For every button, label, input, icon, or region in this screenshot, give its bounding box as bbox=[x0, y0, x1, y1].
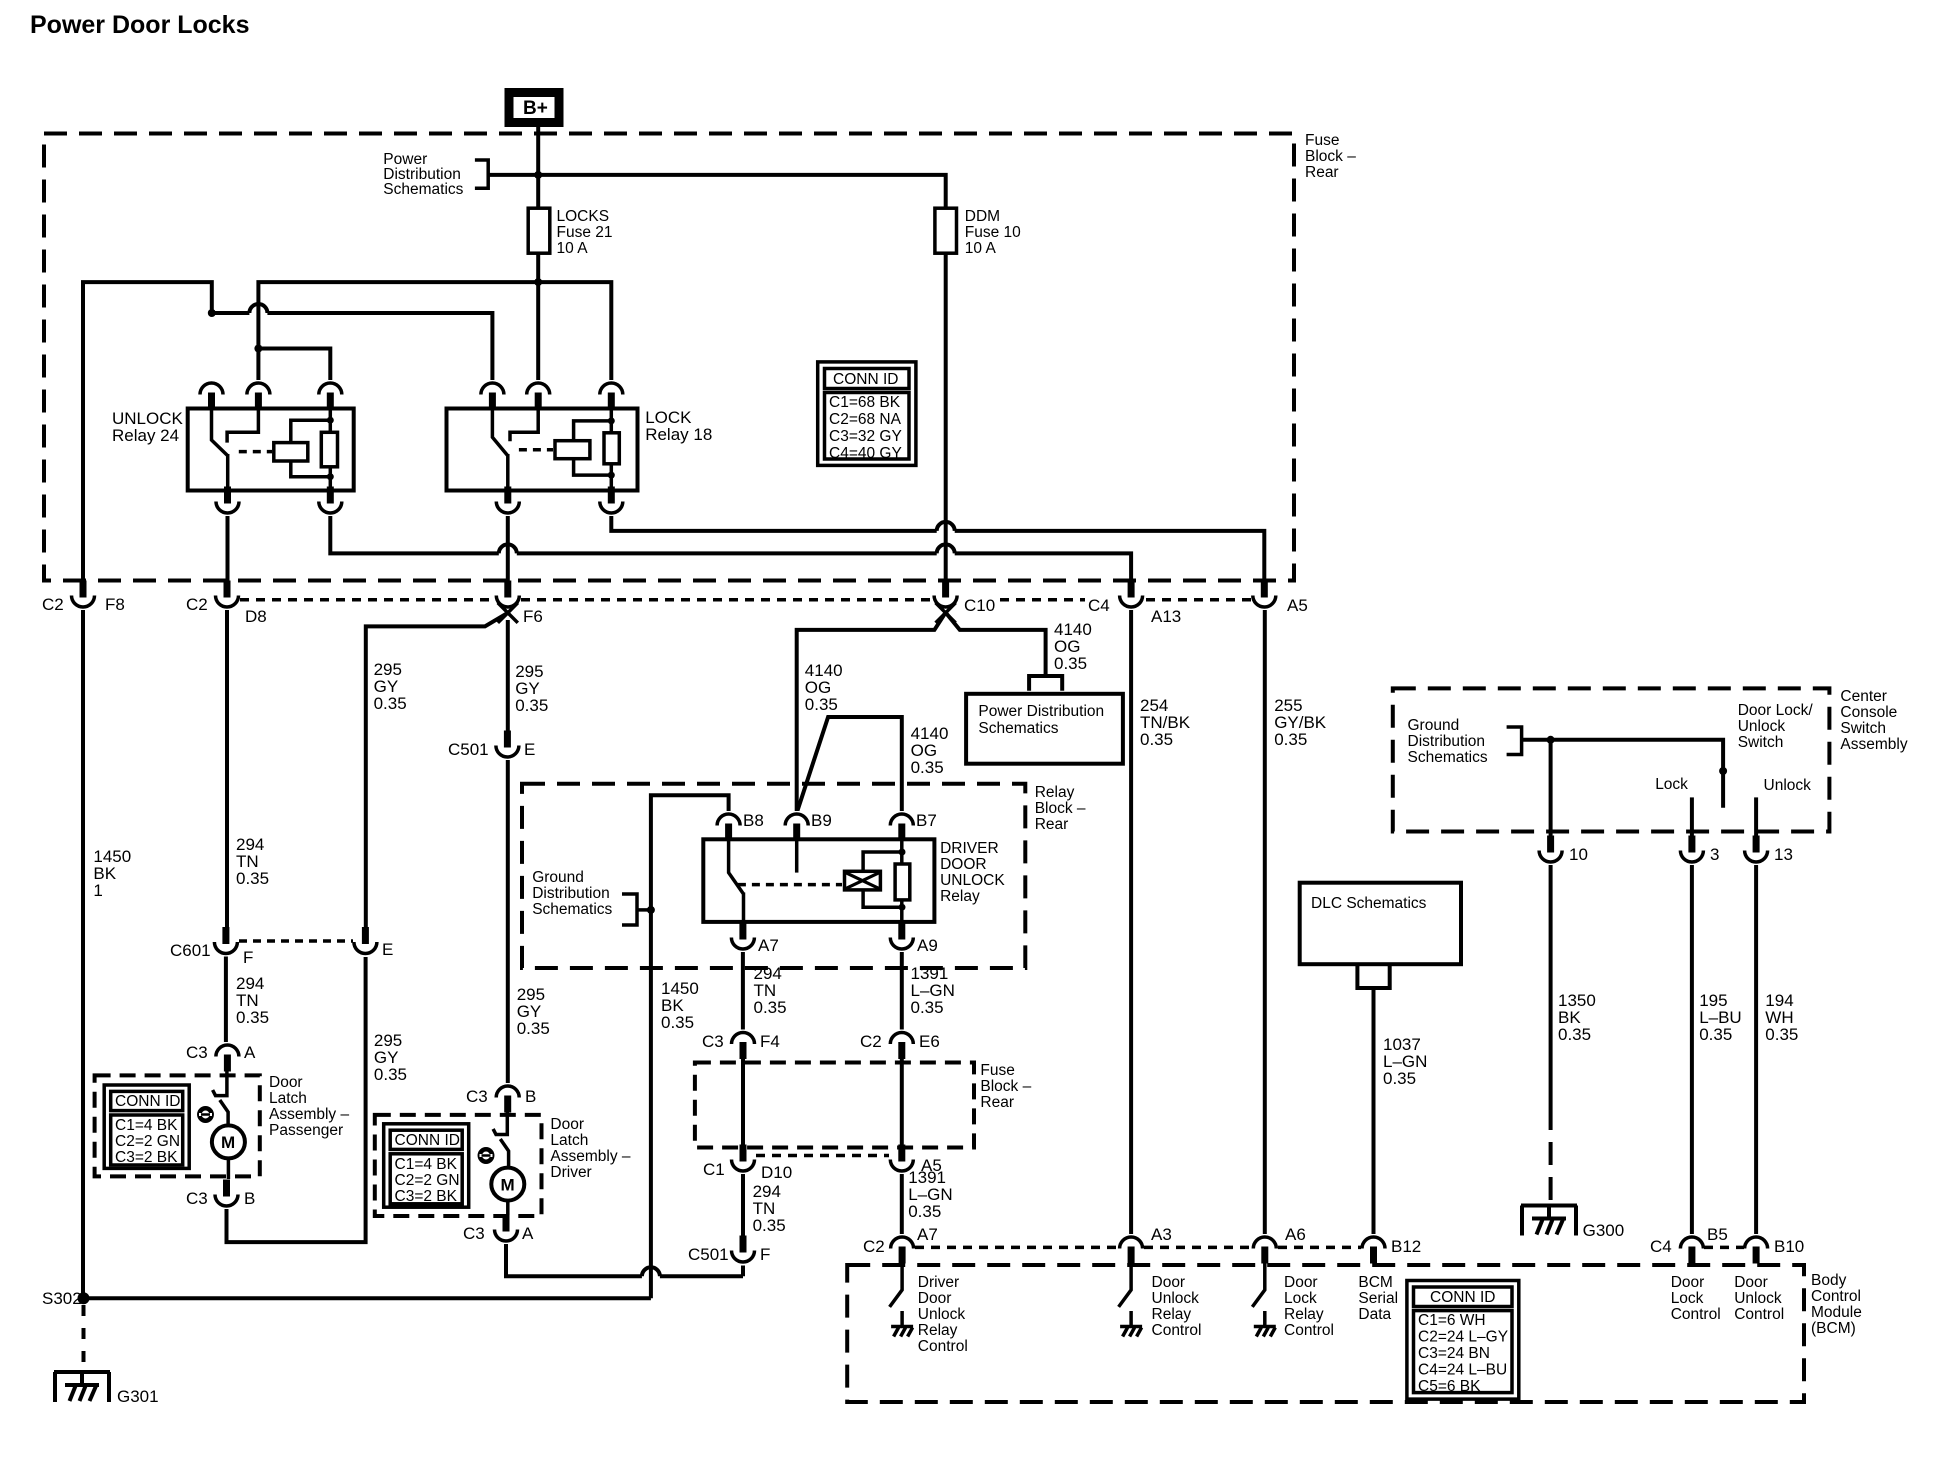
wire: branch down to pin 10 bbox=[1549, 740, 1553, 836]
connector F6 with splice bbox=[496, 581, 543, 627]
Relay Block - Rear enclosure (dashed) bbox=[522, 784, 1025, 968]
svg-text:Body: Body bbox=[1811, 1272, 1847, 1289]
wire 294 TN 0.35: C1/D10 down to C501/F bbox=[743, 1174, 786, 1236]
label: Body Control Module (BCM) bbox=[1811, 1272, 1862, 1337]
connector pin A3 (BCM) bbox=[1120, 1225, 1172, 1264]
svg-text:E: E bbox=[524, 740, 535, 759]
svg-text:Relay: Relay bbox=[940, 888, 980, 905]
svg-text:Driver: Driver bbox=[918, 1274, 959, 1291]
label: Door Latch Assembly - Driver bbox=[550, 1116, 630, 1181]
pin 3 of LOCK relay bbox=[600, 383, 623, 410]
switch contact: Lock bbox=[1690, 797, 1694, 836]
label: Ground Distribution Schematics (off-page) bbox=[532, 869, 612, 918]
relay: DRIVER DOOR UNLOCK Relay bbox=[703, 839, 934, 922]
svg-text:B9: B9 bbox=[811, 811, 832, 830]
wire: H1 bus right segment (unlock pin2 to lock pin3) bbox=[258, 282, 611, 380]
svg-text:F4: F4 bbox=[760, 1032, 780, 1051]
connector C501 pin F bbox=[688, 1236, 770, 1265]
svg-text:C3: C3 bbox=[186, 1043, 208, 1062]
svg-text:Door: Door bbox=[550, 1116, 584, 1133]
svg-text:1: 1 bbox=[93, 881, 102, 900]
svg-text:0.35: 0.35 bbox=[911, 758, 944, 777]
wire 1450 BK 0.35: relay B8 to S302 bbox=[651, 795, 729, 1298]
reference box: Power Distribution Schematics bbox=[966, 694, 1123, 764]
connector pin B12 (BCM) bbox=[1362, 1237, 1421, 1264]
svg-text:B: B bbox=[525, 1087, 536, 1106]
hop: H-553 over F6 wire bbox=[499, 544, 517, 553]
label: BCM Serial Data bbox=[1358, 1274, 1398, 1323]
svg-text:Latch: Latch bbox=[269, 1090, 307, 1107]
connector C3 pin B (passenger latch) bbox=[186, 1180, 255, 1209]
svg-text:0.35: 0.35 bbox=[374, 1065, 407, 1084]
svg-text:B10: B10 bbox=[1774, 1237, 1804, 1256]
svg-text:Relay: Relay bbox=[918, 1322, 958, 1339]
svg-text:Serial: Serial bbox=[1358, 1290, 1398, 1307]
svg-text:DLC Schematics: DLC Schematics bbox=[1311, 895, 1427, 912]
wire: unlock relay pin 4 down to D8 bbox=[226, 516, 230, 586]
svg-text:E: E bbox=[382, 940, 393, 959]
svg-text:0.35: 0.35 bbox=[515, 696, 548, 715]
switch: Door Unlock Relay Control bbox=[1119, 1264, 1143, 1337]
connector pin A5 (fuse block) bbox=[1253, 581, 1308, 616]
polarity mark (passenger latch) bbox=[199, 1108, 212, 1120]
svg-text:A3: A3 bbox=[1151, 1225, 1172, 1244]
svg-text:C2: C2 bbox=[186, 595, 208, 614]
junction at 1450 BK wire / ground distribution tap bbox=[647, 906, 655, 914]
svg-text:C3=2 BK: C3=2 BK bbox=[115, 1149, 178, 1166]
junction at B+ feed / power distribution tap bbox=[534, 171, 542, 179]
svg-text:C5=6 BK: C5=6 BK bbox=[1418, 1378, 1481, 1395]
wire 255 GY/BK 0.35: A5 down to BCM A6 bbox=[1265, 610, 1327, 1234]
svg-text:DRIVER: DRIVER bbox=[940, 840, 999, 857]
svg-text:Door: Door bbox=[1734, 1274, 1768, 1291]
svg-text:A6: A6 bbox=[1285, 1225, 1306, 1244]
svg-text:E6: E6 bbox=[919, 1032, 940, 1051]
svg-text:Block –: Block – bbox=[1305, 148, 1356, 165]
off-page tab below DLC box bbox=[1357, 964, 1389, 988]
svg-text:10: 10 bbox=[1569, 845, 1588, 864]
wire 4140 OG 0.35: C10 to power distribution bbox=[946, 613, 1092, 677]
component: Door Latch Assembly - Driver (dashed box) bbox=[375, 1115, 542, 1216]
svg-text:C3: C3 bbox=[702, 1032, 724, 1051]
svg-text:Relay 24: Relay 24 bbox=[112, 426, 179, 445]
wire 1391 L-GN 0.35: A5 down to BCM C2/A7 bbox=[902, 1168, 953, 1234]
connector boundary dotted A7-A3-A6-B12 bbox=[915, 1246, 1361, 1250]
wire: E6 to A5 inside fuse block bbox=[900, 1056, 904, 1146]
svg-text:0.35: 0.35 bbox=[374, 694, 407, 713]
relay: UNLOCK Relay 24 bbox=[188, 409, 354, 491]
svg-text:C3=24 BN: C3=24 BN bbox=[1418, 1345, 1490, 1362]
wire 1450 BK 1: F8 down to S302 bbox=[83, 610, 131, 1298]
Fuse Block - Rear enclosure (dashed) bbox=[44, 134, 1294, 581]
reference box: DLC Schematics bbox=[1300, 883, 1461, 965]
off-page tab to power distribution bbox=[1029, 676, 1062, 691]
ground G300 bbox=[1521, 1206, 1624, 1241]
svg-text:DDM: DDM bbox=[965, 208, 1000, 225]
svg-text:0.35: 0.35 bbox=[236, 1008, 269, 1027]
Fuse Block - Rear (mid) dashed box bbox=[695, 1063, 974, 1148]
wire: S302 to G301 (dashed) bbox=[82, 1305, 86, 1372]
pin 4 of LOCK relay bbox=[496, 487, 519, 514]
wire: console ground feed bbox=[1522, 740, 1724, 808]
svg-text:Lock: Lock bbox=[1671, 1290, 1704, 1307]
label: Door Lock Control bbox=[1671, 1274, 1721, 1323]
svg-text:13: 13 bbox=[1774, 845, 1793, 864]
svg-text:C2=68 NA: C2=68 NA bbox=[829, 411, 902, 428]
off-page bracket for Ground Distribution Schematics bbox=[622, 894, 651, 925]
svg-text:A9: A9 bbox=[917, 936, 938, 955]
connector pin 13 (console) bbox=[1745, 836, 1793, 865]
svg-text:10 A: 10 A bbox=[557, 240, 589, 257]
svg-text:Lock: Lock bbox=[1655, 776, 1688, 793]
svg-text:Relay: Relay bbox=[1152, 1306, 1192, 1323]
svg-text:C601: C601 bbox=[170, 941, 211, 960]
svg-text:G300: G300 bbox=[1583, 1221, 1625, 1240]
svg-text:Control: Control bbox=[1284, 1322, 1334, 1339]
svg-text:S302: S302 bbox=[42, 1289, 82, 1308]
svg-text:Rear: Rear bbox=[980, 1094, 1014, 1111]
label 295 GY 0.35 (E to passenger latch) bbox=[374, 1031, 407, 1084]
junction at H2 / unlock pin1 bbox=[208, 309, 216, 317]
pin B9 of driver door unlock relay bbox=[785, 811, 832, 841]
svg-text:Control: Control bbox=[1811, 1288, 1861, 1305]
svg-text:3: 3 bbox=[1710, 845, 1719, 864]
junction on switch common bbox=[1719, 767, 1727, 775]
label: Driver Door Unlock Relay Control bbox=[918, 1274, 968, 1355]
svg-text:Schematics: Schematics bbox=[532, 901, 612, 918]
node S302 bbox=[42, 1289, 90, 1308]
pin 1 of LOCK relay bbox=[481, 383, 504, 410]
svg-text:Door: Door bbox=[1671, 1274, 1705, 1291]
pin 5 of LOCK relay bbox=[600, 487, 623, 514]
svg-text:Unlock: Unlock bbox=[1738, 718, 1786, 735]
svg-text:Assembly: Assembly bbox=[1840, 736, 1907, 753]
motor M (driver latch) bbox=[491, 1168, 524, 1215]
svg-text:A7: A7 bbox=[758, 936, 779, 955]
connector C3 pin F4 bbox=[702, 1032, 780, 1059]
wire 294 TN 0.35: relay A7 down to C3/F4 bbox=[743, 952, 787, 1030]
wire 1391 L-GN 0.35: relay A9 down to C2/E6 bbox=[902, 952, 955, 1030]
svg-text:Rear: Rear bbox=[1305, 164, 1339, 181]
svg-text:Relay: Relay bbox=[1035, 784, 1075, 801]
svg-text:0.35: 0.35 bbox=[236, 869, 269, 888]
svg-text:0.35: 0.35 bbox=[1140, 730, 1173, 749]
hop: H2 over unlock pin2 wire bbox=[249, 304, 267, 313]
svg-text:D8: D8 bbox=[245, 607, 267, 626]
svg-text:Rear: Rear bbox=[1035, 816, 1069, 833]
connector pin B10 (BCM) bbox=[1745, 1237, 1805, 1264]
svg-text:A5: A5 bbox=[1287, 596, 1308, 615]
svg-text:G301: G301 bbox=[117, 1387, 159, 1406]
svg-text:A13: A13 bbox=[1151, 607, 1181, 626]
wire 1037 L-GN 0.35: DLC to BCM B12 bbox=[1374, 988, 1428, 1234]
wire: H2 bus from unlock pin1 to lock pin1 bbox=[212, 313, 493, 380]
wire 295 GY 0.35: C501/E down to driver latch B bbox=[508, 760, 550, 1083]
svg-text:C2: C2 bbox=[860, 1032, 882, 1051]
svg-text:Control: Control bbox=[1671, 1306, 1721, 1323]
connector boundary D10 to A5 dotted bbox=[756, 1154, 889, 1158]
hop: H-553 over C10 wire bbox=[937, 544, 955, 553]
connector C2 pin D8 bbox=[186, 581, 267, 627]
svg-text:Data: Data bbox=[1358, 1306, 1391, 1323]
svg-text:0.35: 0.35 bbox=[1383, 1069, 1416, 1088]
svg-text:CONN ID: CONN ID bbox=[833, 371, 898, 388]
Body Control Module (BCM) enclosure (dashed) bbox=[847, 1265, 1804, 1402]
wire 295 GY 0.35: C601/E up to F6 bbox=[366, 613, 507, 928]
svg-text:Switch: Switch bbox=[1840, 720, 1886, 737]
svg-text:B7: B7 bbox=[916, 811, 937, 830]
pin 1 of UNLOCK relay bbox=[200, 383, 223, 410]
svg-text:C3=2 BK: C3=2 BK bbox=[395, 1188, 458, 1205]
svg-text:Fuse 21: Fuse 21 bbox=[557, 224, 613, 241]
svg-text:Distribution: Distribution bbox=[1408, 733, 1486, 750]
svg-text:Block –: Block – bbox=[980, 1078, 1031, 1095]
svg-text:0.35: 0.35 bbox=[805, 695, 838, 714]
svg-text:BCM: BCM bbox=[1358, 1274, 1392, 1291]
svg-text:Center: Center bbox=[1840, 688, 1887, 705]
svg-text:Schematics: Schematics bbox=[383, 181, 463, 198]
svg-text:Unlock: Unlock bbox=[1152, 1290, 1200, 1307]
svg-text:Unlock: Unlock bbox=[918, 1306, 966, 1323]
svg-text:Door: Door bbox=[1284, 1274, 1318, 1291]
svg-text:Passenger: Passenger bbox=[269, 1122, 343, 1139]
wire 254 TN/BK 0.35: C4/A13 down to BCM A3 bbox=[1131, 610, 1191, 1234]
svg-text:Schematics: Schematics bbox=[1408, 749, 1488, 766]
pin 4 of UNLOCK relay bbox=[216, 487, 239, 514]
connector pin 3 (console) bbox=[1680, 836, 1719, 865]
off-page bracket for Power Distribution Schematics bbox=[475, 160, 488, 188]
svg-text:C3: C3 bbox=[463, 1224, 485, 1243]
connector C1 pin D10 bbox=[703, 1145, 792, 1183]
svg-text:Relay: Relay bbox=[1284, 1306, 1324, 1323]
hop: H-530 over C10 wire bbox=[937, 522, 955, 531]
svg-text:CONN ID: CONN ID bbox=[395, 1132, 460, 1149]
svg-text:0.35: 0.35 bbox=[1558, 1025, 1591, 1044]
svg-text:DOOR: DOOR bbox=[940, 856, 987, 873]
pin A7 of driver door unlock relay bbox=[731, 923, 778, 956]
wire 194 WH 0.35: pin 13 to BCM B10 bbox=[1756, 865, 1798, 1234]
connector row C2 dotted boundary bbox=[240, 598, 1251, 602]
wire: driver latch A to C501/F bbox=[506, 1244, 743, 1276]
svg-text:CONN ID: CONN ID bbox=[1430, 1289, 1495, 1306]
CONN ID table (passenger latch) bbox=[104, 1085, 189, 1168]
pin A9 of driver door unlock relay bbox=[890, 923, 937, 956]
svg-text:C4=24 L–BU: C4=24 L–BU bbox=[1418, 1362, 1507, 1379]
wire: lock relay pin 4 down to F6 bbox=[506, 516, 510, 586]
connector pin 10 (console) bbox=[1539, 836, 1588, 865]
off-page bracket (console ground distribution) bbox=[1507, 727, 1523, 755]
svg-text:Driver: Driver bbox=[550, 1164, 591, 1181]
svg-text:Unlock: Unlock bbox=[1734, 1290, 1782, 1307]
svg-text:Door: Door bbox=[918, 1290, 952, 1307]
svg-text:F8: F8 bbox=[105, 595, 125, 614]
wire 295 GY 0.35: F6 down to C501/E bbox=[508, 620, 548, 733]
svg-text:CONN ID: CONN ID bbox=[115, 1093, 180, 1110]
connector C4 pin B5 (BCM) bbox=[1650, 1225, 1728, 1264]
switch (passenger latch) bbox=[213, 1071, 229, 1127]
hop: driver latch wire over 1450 BK wire bbox=[642, 1267, 660, 1276]
connector C4 pin A13 bbox=[1088, 581, 1181, 627]
svg-text:B5: B5 bbox=[1707, 1225, 1728, 1244]
label: Door Latch Assembly - Passenger bbox=[269, 1074, 349, 1139]
svg-text:C1=68 BK: C1=68 BK bbox=[829, 394, 901, 411]
svg-text:C4=40 GY: C4=40 GY bbox=[829, 445, 902, 462]
CONN ID table (driver latch) bbox=[384, 1124, 469, 1207]
label: Door Lock Relay Control bbox=[1284, 1274, 1334, 1339]
svg-text:Unlock: Unlock bbox=[1764, 777, 1812, 794]
svg-text:Distribution: Distribution bbox=[532, 885, 610, 902]
svg-text:0.35: 0.35 bbox=[1274, 730, 1307, 749]
svg-text:Relay 18: Relay 18 bbox=[645, 425, 712, 444]
power terminal B+ bbox=[509, 93, 559, 123]
svg-text:C2=2 GN: C2=2 GN bbox=[395, 1172, 460, 1189]
wire: lock relay pin 5 to A5 (H-530) bbox=[611, 516, 1264, 586]
junction at H3 / unlock pin2 wire bbox=[254, 345, 262, 353]
wire: H3 tap to unlock pin3 bbox=[258, 349, 330, 381]
svg-text:Door: Door bbox=[1152, 1274, 1186, 1291]
connector pin A6 (BCM) bbox=[1253, 1225, 1305, 1264]
connector C2 pin A7 (BCM) bbox=[863, 1225, 938, 1264]
label: Power Distribution Schematics (off-page) bbox=[383, 151, 463, 198]
wire 1350 BK 0.35: pin 10 to G300 bbox=[1551, 865, 1596, 1206]
svg-text:LOCKS: LOCKS bbox=[557, 208, 610, 225]
wire 4140 OG 0.35: relay B7 to B9 bbox=[798, 717, 949, 811]
svg-text:A: A bbox=[522, 1224, 534, 1243]
wire 294 TN 0.35: D8 down to C601/F bbox=[227, 610, 269, 928]
svg-text:B12: B12 bbox=[1391, 1237, 1421, 1256]
switch (driver latch) bbox=[493, 1112, 509, 1168]
connector C3 pin A (passenger latch) bbox=[186, 1043, 256, 1072]
wire: B+ feed down to LOCK relay pin 2 bbox=[536, 127, 540, 380]
svg-text:Fuse: Fuse bbox=[980, 1062, 1014, 1079]
label: Door Unlock Control bbox=[1734, 1274, 1784, 1323]
label: Door Lock/ Unlock Switch bbox=[1738, 702, 1814, 751]
connector C3 pin B (driver latch) bbox=[466, 1086, 536, 1113]
svg-text:C2=24 L–GY: C2=24 L–GY bbox=[1418, 1329, 1508, 1346]
label: Relay Block - Rear bbox=[1035, 784, 1086, 833]
svg-text:B8: B8 bbox=[743, 811, 764, 830]
label: Ground Distribution Schematics (console, off-page) bbox=[1408, 717, 1488, 766]
label: Door Unlock Relay Control bbox=[1152, 1274, 1202, 1339]
svg-text:Fuse 10: Fuse 10 bbox=[965, 224, 1021, 241]
label: Center Console Switch Assembly bbox=[1840, 688, 1907, 753]
switch contact: Unlock bbox=[1754, 797, 1758, 836]
label: DRIVER DOOR UNLOCK Relay bbox=[940, 840, 1005, 905]
Center Console Switch Assembly enclosure (dashed) bbox=[1393, 688, 1830, 831]
svg-text:UNLOCK: UNLOCK bbox=[940, 872, 1005, 889]
connector C601 pin E bbox=[354, 927, 393, 959]
svg-text:C3: C3 bbox=[466, 1087, 488, 1106]
wire: S302 splice bus bbox=[84, 1296, 651, 1300]
svg-text:Ground: Ground bbox=[1408, 717, 1460, 734]
svg-text:Schematics: Schematics bbox=[978, 720, 1058, 737]
svg-text:Power Door Locks: Power Door Locks bbox=[30, 11, 250, 39]
svg-text:C2=2 GN: C2=2 GN bbox=[115, 1133, 180, 1150]
svg-text:Control: Control bbox=[1152, 1322, 1202, 1339]
wire 294 TN 0.35: C601/F down to passenger latch A bbox=[226, 957, 269, 1043]
svg-text:C501: C501 bbox=[688, 1245, 729, 1264]
connector C601 dashed boundary bbox=[239, 939, 353, 943]
svg-text:C4: C4 bbox=[1088, 596, 1110, 615]
pin 5 of UNLOCK relay bbox=[319, 487, 342, 514]
fuse: DDM Fuse 10 10 A bbox=[935, 208, 1021, 257]
svg-text:A: A bbox=[244, 1043, 256, 1062]
wire: H1 bus left segment to F8 and down-tap bbox=[83, 282, 212, 586]
svg-text:C10: C10 bbox=[964, 596, 995, 615]
svg-text:0.35: 0.35 bbox=[753, 1216, 786, 1235]
pin 3 of UNLOCK relay bbox=[319, 383, 342, 410]
pin B8 of driver door unlock relay bbox=[717, 811, 764, 841]
connector C601 pin F bbox=[170, 927, 253, 967]
svg-text:0.35: 0.35 bbox=[661, 1013, 694, 1032]
connector C2 pin E6 bbox=[860, 1032, 940, 1059]
junction at B+ feed / H1 bus bbox=[534, 278, 542, 286]
svg-text:B+: B+ bbox=[523, 98, 548, 119]
ground G301 bbox=[54, 1372, 159, 1406]
svg-text:C1: C1 bbox=[703, 1160, 725, 1179]
svg-text:10 A: 10 A bbox=[965, 240, 997, 257]
svg-text:C3=32 GY: C3=32 GY bbox=[829, 428, 902, 445]
svg-text:C2: C2 bbox=[863, 1237, 885, 1256]
svg-text:Power Distribution: Power Distribution bbox=[978, 703, 1104, 720]
connector pin A5 (fuse block bottom) bbox=[890, 1145, 941, 1176]
connector boundary dotted B5-B10 bbox=[1704, 1246, 1744, 1250]
svg-text:Assembly –: Assembly – bbox=[550, 1148, 630, 1165]
wire: unlock relay pin 5 to C4/A13 (H-553) bbox=[330, 516, 1131, 586]
polarity mark (driver latch) bbox=[480, 1149, 493, 1161]
svg-text:0.35: 0.35 bbox=[911, 998, 944, 1017]
svg-text:C4: C4 bbox=[1650, 1237, 1672, 1256]
svg-text:F: F bbox=[760, 1245, 770, 1264]
svg-text:F: F bbox=[243, 948, 253, 967]
pin B7 of driver door unlock relay bbox=[890, 811, 936, 841]
junction at switch pin 10 branch bbox=[1547, 736, 1555, 744]
svg-text:F6: F6 bbox=[523, 607, 543, 626]
switch: Door Lock Relay Control bbox=[1252, 1264, 1276, 1337]
wire 195 L-BU 0.35: pin 3 to BCM C4/B5 bbox=[1692, 865, 1742, 1234]
component: Door Latch Assembly - Passenger (dashed box) bbox=[95, 1075, 260, 1176]
svg-text:Block –: Block – bbox=[1035, 800, 1086, 817]
CONN ID table (BCM) bbox=[1407, 1281, 1519, 1400]
svg-text:Assembly –: Assembly – bbox=[269, 1106, 349, 1123]
svg-text:M: M bbox=[221, 1133, 235, 1152]
svg-text:0.35: 0.35 bbox=[1699, 1025, 1732, 1044]
svg-text:Fuse: Fuse bbox=[1305, 132, 1339, 149]
svg-text:D10: D10 bbox=[761, 1163, 792, 1182]
wire: F4 to D10 inside fuse block bbox=[741, 1056, 745, 1146]
pin 2 of LOCK relay bbox=[527, 383, 550, 410]
svg-text:Door: Door bbox=[269, 1074, 303, 1091]
svg-text:C501: C501 bbox=[448, 740, 489, 759]
svg-text:0.35: 0.35 bbox=[1765, 1025, 1798, 1044]
wire: power distribution tap to DDM fuse and down to C10 bbox=[488, 175, 946, 586]
svg-text:0.35: 0.35 bbox=[517, 1019, 550, 1038]
svg-text:M: M bbox=[501, 1176, 515, 1195]
wire 4140 OG 0.35: C10 to relay B9 bbox=[797, 613, 946, 812]
svg-text:C3: C3 bbox=[186, 1189, 208, 1208]
svg-text:Console: Console bbox=[1840, 704, 1897, 721]
svg-text:Door Lock/: Door Lock/ bbox=[1738, 702, 1814, 719]
svg-text:C1=4 BK: C1=4 BK bbox=[395, 1156, 458, 1173]
label: Fuse Block - Rear (mid) bbox=[980, 1062, 1031, 1111]
connector C10 with splice bbox=[934, 581, 995, 623]
svg-text:Ground: Ground bbox=[532, 869, 584, 886]
wire: passenger latch B to C601/E bbox=[227, 957, 366, 1242]
svg-text:C2: C2 bbox=[42, 595, 64, 614]
svg-text:0.35: 0.35 bbox=[754, 998, 787, 1017]
svg-text:0.35: 0.35 bbox=[1054, 654, 1087, 673]
svg-text:Control: Control bbox=[1734, 1306, 1784, 1323]
